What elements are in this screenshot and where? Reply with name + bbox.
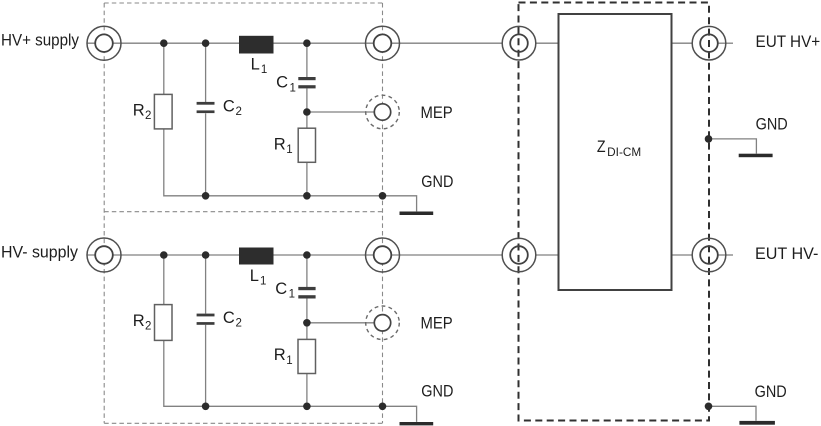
- svg-text:2: 2: [145, 110, 151, 122]
- wire top right ground link: [709, 139, 756, 154]
- wire bottom C1 to R1: [306, 298, 308, 339]
- terminal HV+ supply: [87, 26, 121, 60]
- terminal top EUT input: [502, 26, 536, 60]
- svg-text:HV- supply: HV- supply: [1, 243, 78, 262]
- svg-text:HV+ supply: HV+ supply: [1, 31, 79, 50]
- junction dots bottom rail: [160, 251, 311, 259]
- capacitor C1 top plates: [298, 77, 315, 88]
- capacitor C2 bottom plates: [197, 314, 215, 325]
- svg-text:EUT HV-: EUT HV-: [755, 244, 818, 263]
- junction dots top rail: [160, 39, 311, 47]
- junction dot top C1-R1-MEP node: [303, 108, 311, 116]
- impedance block Z DI-CM: [559, 14, 672, 290]
- svg-text:GND: GND: [755, 382, 787, 401]
- svg-text:MEP: MEP: [421, 103, 453, 122]
- wire top main rail: [87, 42, 502, 44]
- svg-text:MEP: MEP: [421, 314, 453, 333]
- junction dot top right ground node: [705, 135, 713, 143]
- label R1 bottom: [274, 346, 293, 367]
- wire bottom C2 upper lead: [205, 255, 207, 314]
- svg-text:1: 1: [289, 289, 295, 301]
- capacitor C2 top plates: [197, 102, 215, 113]
- label L1 top: [251, 56, 268, 77]
- wire top terminal to Z block: [536, 42, 559, 44]
- label Z DI-CM: [597, 138, 641, 159]
- filter shield dashed box divider edge: [104, 211, 382, 213]
- svg-text:R: R: [274, 135, 286, 153]
- wire top C2 lower lead: [205, 113, 207, 196]
- ground top-left bar: [400, 212, 434, 216]
- wire bottom EUT terminal stub: [718, 254, 734, 256]
- svg-text:R: R: [133, 312, 145, 330]
- filter shield dashed box top edge: [104, 2, 382, 4]
- wire bottom terminal to Z block: [536, 254, 559, 256]
- svg-text:R: R: [274, 346, 286, 364]
- svg-text:GND: GND: [421, 382, 453, 401]
- wire bottom C2 lower lead: [205, 325, 207, 407]
- resistor R2 bottom: [155, 305, 173, 341]
- wire bottom Z block to EUT terminal: [672, 254, 693, 256]
- wire top C1 upper lead: [306, 43, 308, 77]
- wire bottom main rail: [87, 254, 502, 256]
- junction dots bottom ground rail: [202, 403, 387, 411]
- wire bottom MEP branch: [307, 322, 374, 324]
- svg-text:L: L: [251, 56, 260, 74]
- svg-text:1: 1: [290, 82, 296, 94]
- label L1 bottom: [250, 267, 267, 288]
- wire top EUT terminal stub: [718, 42, 734, 44]
- junction dot bottom right ground node: [705, 403, 713, 411]
- inductor L1 top: [239, 36, 274, 54]
- wire top R1 lower lead: [306, 162, 308, 196]
- filter shield dashed box left edge: [103, 3, 105, 423]
- svg-text:2: 2: [236, 318, 242, 330]
- terminal top EUT HV+: [692, 26, 726, 60]
- filter shield dashed box bottom edge: [104, 422, 382, 424]
- inductor L1 bottom: [239, 248, 274, 265]
- svg-text:C: C: [275, 280, 287, 298]
- wire bottom ground rail: [164, 340, 417, 422]
- ground top-right bar: [739, 154, 773, 158]
- resistor R2 top: [154, 94, 172, 128]
- label R2 bottom: [133, 312, 152, 333]
- terminal top filter output: [366, 26, 400, 60]
- svg-text:C: C: [223, 98, 235, 116]
- wire bottom C1 upper lead: [306, 255, 308, 287]
- svg-text:GND: GND: [756, 115, 788, 134]
- label C2 bottom: [223, 309, 242, 330]
- svg-text:1: 1: [260, 276, 266, 288]
- wire bottom R2 upper lead: [163, 255, 165, 305]
- svg-text:C: C: [223, 309, 235, 327]
- terminal bottom EUT HV-: [692, 238, 726, 272]
- capacitor C1 bottom plates: [298, 287, 315, 299]
- wire top R2 upper lead: [163, 43, 165, 94]
- wire top Z block to EUT terminal: [672, 42, 693, 44]
- filter shield dashed box right edge: [382, 3, 384, 423]
- svg-text:1: 1: [286, 144, 292, 156]
- resistor R1 top: [298, 128, 315, 162]
- terminal HV- supply: [87, 238, 121, 272]
- terminal bottom EUT input: [502, 238, 536, 272]
- resistor R1 bottom: [298, 339, 316, 373]
- svg-text:1: 1: [286, 355, 292, 367]
- svg-text:2: 2: [236, 106, 242, 118]
- wire top C1 to R1: [306, 88, 308, 128]
- label C1 bottom: [275, 280, 295, 301]
- svg-text:2: 2: [145, 321, 151, 333]
- label R1 top: [274, 135, 293, 156]
- svg-text:1: 1: [261, 64, 267, 76]
- wire top ground rail: [164, 129, 417, 212]
- svg-text:Z: Z: [597, 138, 606, 156]
- EUT shield dashed box: [519, 3, 710, 421]
- junction dot bottom C1-R1-MEP node: [303, 319, 311, 327]
- label R2 top: [133, 101, 152, 122]
- svg-text:EUT HV+: EUT HV+: [756, 32, 821, 51]
- svg-text:L: L: [250, 267, 259, 285]
- label C1 top: [276, 74, 296, 95]
- wire bottom R1 lower lead: [306, 374, 308, 407]
- svg-text:DI-CM: DI-CM: [607, 147, 641, 159]
- svg-text:R: R: [133, 101, 145, 119]
- svg-text:GND: GND: [421, 172, 453, 191]
- wire top MEP branch: [307, 111, 374, 113]
- MEP port top: [366, 95, 400, 129]
- label C2 top: [223, 98, 242, 119]
- terminal bottom filter output: [366, 238, 400, 272]
- ground bottom-right bar: [739, 421, 775, 425]
- wire top C2 upper lead: [205, 43, 207, 102]
- svg-text:C: C: [276, 74, 288, 92]
- junction dots top ground rail: [202, 192, 387, 200]
- ground bottom-left bar: [400, 422, 434, 425]
- MEP port bottom: [366, 306, 400, 340]
- wire bottom right ground link: [709, 406, 756, 420]
